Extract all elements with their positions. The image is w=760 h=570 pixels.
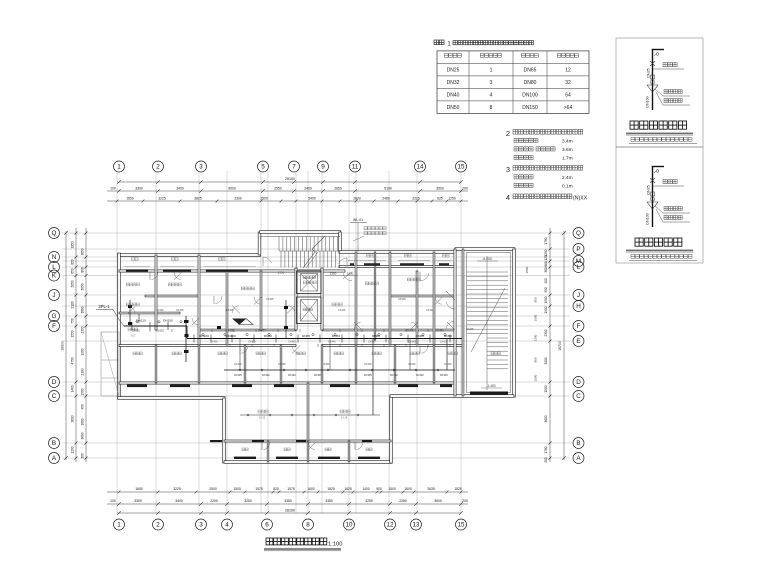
svg-text:J: J bbox=[577, 292, 580, 299]
svg-text:1: 1 bbox=[117, 164, 121, 171]
svg-text:7: 7 bbox=[292, 164, 296, 171]
svg-text:2: 2 bbox=[156, 522, 160, 529]
svg-text:DN25: DN25 bbox=[338, 308, 346, 312]
svg-text:2: 2 bbox=[156, 164, 160, 171]
svg-text:1900: 1900 bbox=[544, 306, 548, 313]
main pipe branches bbox=[132, 322, 450, 343]
svg-text:D: D bbox=[52, 379, 57, 386]
small fitting bbox=[651, 75, 655, 79]
svg-text:1250: 1250 bbox=[448, 197, 456, 201]
svg-text:DN50: DN50 bbox=[447, 105, 460, 111]
svg-text:DN25: DN25 bbox=[647, 68, 651, 77]
drawing title bbox=[266, 538, 327, 545]
elevator shaft 2 bbox=[297, 297, 322, 324]
svg-text:28100: 28100 bbox=[285, 177, 295, 181]
svg-text:1825: 1825 bbox=[454, 487, 462, 491]
svg-text:3300: 3300 bbox=[135, 187, 143, 191]
svg-text:3.07: 3.07 bbox=[130, 334, 136, 338]
svg-text:2500: 2500 bbox=[260, 197, 268, 201]
svg-text:3400: 3400 bbox=[176, 187, 184, 191]
svg-text:D: D bbox=[576, 379, 581, 386]
svg-text:1650: 1650 bbox=[126, 197, 134, 201]
svg-text:DN25: DN25 bbox=[444, 362, 452, 366]
interior walls horizontal bbox=[119, 270, 345, 272]
svg-text:4: 4 bbox=[490, 93, 493, 99]
svg-text:14: 14 bbox=[416, 164, 424, 171]
svg-text:1500: 1500 bbox=[534, 374, 538, 381]
svg-text:1780: 1780 bbox=[544, 237, 548, 244]
svg-text:F: F bbox=[52, 323, 56, 330]
svg-text:1.7m: 1.7m bbox=[562, 156, 573, 162]
svg-text:2225: 2225 bbox=[412, 197, 420, 201]
svg-text:>64: >64 bbox=[564, 105, 573, 111]
svg-text:2050: 2050 bbox=[71, 280, 75, 287]
svg-text:1500: 1500 bbox=[388, 487, 396, 491]
svg-text:N: N bbox=[52, 254, 57, 261]
svg-text:DN25: DN25 bbox=[314, 373, 322, 377]
test pipe bbox=[652, 166, 654, 227]
svg-text:800: 800 bbox=[81, 267, 85, 273]
test valve symbol bbox=[650, 178, 655, 183]
svg-text:F: F bbox=[577, 323, 581, 330]
window sill marks top band left bbox=[126, 269, 148, 271]
svg-text:H: H bbox=[576, 303, 581, 310]
svg-text:5: 5 bbox=[261, 164, 265, 171]
svg-text:1575: 1575 bbox=[287, 487, 295, 491]
svg-text:5400: 5400 bbox=[308, 197, 316, 201]
svg-text:650: 650 bbox=[71, 268, 75, 274]
svg-text:DN32: DN32 bbox=[390, 373, 398, 377]
note 3 items bbox=[514, 175, 533, 179]
svg-text:1575: 1575 bbox=[255, 487, 263, 491]
svg-text:3400: 3400 bbox=[175, 499, 183, 503]
stair door arcs bbox=[263, 257, 271, 263]
svg-text:2: 2 bbox=[506, 129, 510, 138]
svg-text:DN100: DN100 bbox=[522, 93, 538, 99]
svg-text:DN32: DN32 bbox=[447, 80, 460, 86]
svg-text:C: C bbox=[576, 393, 581, 400]
svg-text:DN40: DN40 bbox=[447, 93, 460, 99]
elevator shaft 1 bbox=[297, 271, 322, 294]
svg-text:Q: Q bbox=[576, 230, 581, 237]
svg-text:DN25: DN25 bbox=[132, 329, 140, 333]
label below left pipe bbox=[128, 328, 138, 331]
svg-text:DN65: DN65 bbox=[302, 334, 310, 338]
box note bbox=[631, 138, 692, 142]
svg-text:950: 950 bbox=[544, 287, 548, 293]
svg-text:625: 625 bbox=[437, 197, 443, 201]
svg-text:DN100: DN100 bbox=[199, 334, 209, 338]
svg-text:DN25: DN25 bbox=[406, 329, 414, 333]
svg-text:32: 32 bbox=[565, 80, 571, 86]
svg-text:WL-01: WL-01 bbox=[353, 218, 363, 222]
svg-text:DN25: DN25 bbox=[364, 373, 372, 377]
svg-text:2635: 2635 bbox=[427, 487, 435, 491]
svg-text:400: 400 bbox=[544, 278, 548, 284]
svg-text:3: 3 bbox=[199, 522, 203, 529]
interior walls vertical bbox=[155, 255, 157, 330]
svg-text:DN25: DN25 bbox=[156, 329, 164, 333]
window sill marks top band right bbox=[350, 263, 354, 266]
staircase treads bbox=[260, 237, 340, 268]
right dimension lines bbox=[549, 228, 551, 462]
door marks bottom band bbox=[210, 440, 222, 442]
left axis circles bbox=[49, 228, 60, 239]
stair break line bbox=[303, 252, 315, 268]
detail box 2 (end test valve) bbox=[616, 147, 703, 263]
svg-text:3600: 3600 bbox=[81, 432, 85, 439]
wing room labels bbox=[258, 410, 268, 413]
box note bbox=[631, 255, 692, 259]
svg-text:DN40: DN40 bbox=[408, 340, 416, 344]
svg-text:DN25: DN25 bbox=[440, 373, 448, 377]
svg-text:DN25: DN25 bbox=[398, 297, 406, 301]
svg-text:DN25: DN25 bbox=[466, 327, 474, 331]
svg-text:DN25: DN25 bbox=[278, 362, 286, 366]
svg-text:900: 900 bbox=[376, 487, 382, 491]
right axis circles bbox=[573, 228, 584, 239]
svg-text:980: 980 bbox=[534, 357, 538, 362]
band shelf lines bbox=[124, 260, 452, 266]
svg-text:1350: 1350 bbox=[330, 272, 337, 276]
svg-text:100: 100 bbox=[110, 499, 116, 503]
svg-text:B: B bbox=[52, 440, 56, 447]
svg-text:DN65: DN65 bbox=[524, 68, 537, 74]
test pipe bbox=[652, 49, 654, 110]
svg-text:1: 1 bbox=[490, 68, 493, 74]
svg-text:2350: 2350 bbox=[81, 326, 85, 333]
svg-text:1500: 1500 bbox=[534, 314, 538, 321]
svg-text:DN65: DN65 bbox=[210, 340, 218, 344]
svg-text:4: 4 bbox=[506, 193, 510, 202]
svg-text:1850: 1850 bbox=[71, 241, 75, 248]
sprinkler count table bbox=[437, 51, 589, 114]
svg-text:DN25: DN25 bbox=[647, 185, 651, 194]
wing bottom room labels bbox=[242, 448, 248, 451]
room labels storage band bbox=[132, 258, 139, 261]
svg-text:28100: 28100 bbox=[285, 509, 295, 513]
svg-text:B: B bbox=[576, 440, 580, 447]
svg-text:DN32: DN32 bbox=[426, 308, 434, 312]
svg-text:DN25: DN25 bbox=[226, 329, 234, 333]
svg-text:DN32: DN32 bbox=[408, 362, 416, 366]
gauge bbox=[656, 53, 659, 56]
dots near left riser bbox=[128, 305, 132, 308]
axis grid vertical lines bbox=[116, 171, 118, 513]
svg-text:1625: 1625 bbox=[344, 487, 352, 491]
svg-text:9: 9 bbox=[321, 164, 325, 171]
elevator labels bbox=[303, 276, 316, 279]
svg-text:G: G bbox=[52, 313, 57, 320]
svg-text:DN25: DN25 bbox=[176, 308, 184, 312]
svg-text:DN32: DN32 bbox=[288, 373, 296, 377]
svg-text:2.4m: 2.4m bbox=[562, 175, 573, 181]
svg-text:2100: 2100 bbox=[81, 368, 85, 375]
svg-text:12: 12 bbox=[565, 68, 571, 74]
svg-text:3500: 3500 bbox=[436, 187, 444, 191]
svg-text:1825: 1825 bbox=[327, 487, 335, 491]
sprinkler main pipe bbox=[124, 325, 187, 327]
svg-text:3600: 3600 bbox=[71, 415, 75, 422]
svg-text:2400: 2400 bbox=[304, 187, 312, 191]
svg-text:1780: 1780 bbox=[544, 446, 548, 453]
svg-text:2100: 2100 bbox=[71, 301, 75, 308]
svg-text:6: 6 bbox=[265, 522, 269, 529]
pump pit symbol bbox=[232, 319, 246, 325]
svg-text:1200: 1200 bbox=[71, 446, 75, 453]
svg-text:3225: 3225 bbox=[173, 487, 181, 491]
svg-text:DN32: DN32 bbox=[416, 373, 424, 377]
svg-text:DN100: DN100 bbox=[646, 96, 650, 107]
svg-text:750: 750 bbox=[71, 318, 75, 324]
svg-text:300: 300 bbox=[81, 453, 85, 459]
svg-text:2500: 2500 bbox=[209, 487, 217, 491]
svg-text:1500: 1500 bbox=[233, 487, 241, 491]
svg-text:3350: 3350 bbox=[284, 499, 292, 503]
test valve symbol bbox=[650, 61, 655, 66]
svg-text:DN80: DN80 bbox=[372, 334, 380, 338]
svg-text:1500: 1500 bbox=[81, 388, 85, 395]
svg-text:200: 200 bbox=[544, 457, 548, 463]
svg-text:1600: 1600 bbox=[81, 418, 85, 425]
svg-text:16700: 16700 bbox=[558, 341, 562, 351]
window sill marks mid band bbox=[127, 385, 147, 388]
svg-text:DN100: DN100 bbox=[226, 334, 236, 338]
note 2 items bbox=[514, 138, 538, 142]
left dimension lines bbox=[65, 231, 67, 460]
svg-text:15: 15 bbox=[457, 164, 465, 171]
svg-text:14.23: 14.23 bbox=[259, 416, 266, 420]
svg-text:1550: 1550 bbox=[525, 266, 529, 273]
svg-text:L: L bbox=[577, 264, 581, 271]
svg-text:(N)XX: (N)XX bbox=[573, 196, 588, 202]
svg-text:1550: 1550 bbox=[278, 271, 285, 275]
svg-text:400: 400 bbox=[81, 404, 85, 410]
lobby label bbox=[332, 303, 342, 306]
building outer walls bbox=[118, 254, 261, 257]
svg-text:DN25: DN25 bbox=[440, 340, 448, 344]
top dimension lines bbox=[117, 181, 461, 183]
pipe jog fittings bbox=[184, 320, 189, 323]
svg-text:DN150: DN150 bbox=[522, 105, 538, 111]
svg-text:1: 1 bbox=[117, 522, 121, 529]
funnel bbox=[647, 85, 658, 92]
secondary pipe row2 bbox=[224, 369, 455, 371]
svg-text:3200: 3200 bbox=[544, 357, 548, 364]
svg-text:1600: 1600 bbox=[307, 487, 315, 491]
svg-text:DN65: DN65 bbox=[288, 340, 296, 344]
door swing arcs bbox=[149, 272, 151, 280]
top axis circles bbox=[114, 161, 125, 172]
leader to couplings bbox=[655, 89, 663, 96]
svg-text:3PL-1: 3PL-1 bbox=[98, 304, 110, 309]
ramp treads bbox=[467, 256, 508, 390]
svg-text:1550: 1550 bbox=[71, 330, 75, 337]
sprinkler heads on corridor bbox=[136, 321, 446, 336]
svg-text:360: 360 bbox=[544, 267, 548, 273]
svg-text:10: 10 bbox=[345, 522, 353, 529]
svg-text:16300: 16300 bbox=[61, 341, 65, 351]
svg-text:DN80: DN80 bbox=[248, 340, 256, 344]
svg-text:1600: 1600 bbox=[404, 487, 412, 491]
riser pipes bbox=[129, 300, 131, 326]
window sill marks wing bottom bbox=[234, 457, 256, 459]
ramp bottom platform mark bbox=[470, 392, 508, 395]
svg-text:DN50: DN50 bbox=[332, 334, 340, 338]
svg-text:3225: 3225 bbox=[158, 197, 166, 201]
svg-text:1400: 1400 bbox=[71, 385, 75, 392]
svg-text:DN25: DN25 bbox=[234, 373, 242, 377]
svg-text:DN32: DN32 bbox=[258, 329, 266, 333]
wing sprinkler pipes bbox=[240, 414, 380, 416]
svg-text:DN100: DN100 bbox=[646, 213, 650, 224]
svg-text:8: 8 bbox=[306, 522, 310, 529]
svg-text:1650: 1650 bbox=[81, 248, 85, 255]
svg-text:-1.400: -1.400 bbox=[486, 384, 495, 388]
leader to couplings bbox=[655, 206, 663, 213]
svg-text:DN25: DN25 bbox=[364, 362, 372, 366]
svg-text:825: 825 bbox=[273, 487, 279, 491]
svg-text:4750: 4750 bbox=[71, 357, 75, 364]
funnel bbox=[647, 202, 658, 209]
svg-text:DN25: DN25 bbox=[447, 68, 460, 74]
svg-text:660: 660 bbox=[544, 261, 548, 267]
svg-text:12: 12 bbox=[386, 522, 394, 529]
axis grid horizontal lines bbox=[62, 232, 570, 234]
svg-text:2650: 2650 bbox=[334, 187, 342, 191]
box title bbox=[630, 121, 687, 129]
svg-text:1650: 1650 bbox=[135, 487, 143, 491]
svg-text:100: 100 bbox=[110, 187, 116, 191]
svg-text:Q: Q bbox=[52, 230, 57, 237]
svg-text:14.18: 14.18 bbox=[341, 416, 348, 420]
detail box 1 (end test device) bbox=[616, 38, 703, 147]
svg-text:DN65: DN65 bbox=[368, 340, 376, 344]
svg-text:120: 120 bbox=[544, 255, 548, 261]
room labels row 2 bbox=[126, 283, 139, 286]
svg-text:E: E bbox=[576, 338, 580, 345]
ramp enclosure bbox=[467, 253, 511, 393]
svg-text:DN80: DN80 bbox=[264, 334, 272, 338]
svg-text:3250: 3250 bbox=[365, 499, 373, 503]
small fitting bbox=[651, 192, 655, 196]
svg-text:J: J bbox=[52, 292, 55, 299]
svg-text:3300: 3300 bbox=[134, 499, 142, 503]
svg-text:1900: 1900 bbox=[544, 296, 548, 303]
svg-text:DN100: DN100 bbox=[137, 313, 141, 323]
svg-text:DN40: DN40 bbox=[156, 308, 164, 312]
notes heading line 1 bbox=[434, 40, 444, 45]
svg-text:1400: 1400 bbox=[362, 487, 370, 491]
svg-text:11: 11 bbox=[352, 164, 359, 171]
gauge bbox=[656, 170, 659, 173]
svg-text:3600: 3600 bbox=[434, 499, 442, 503]
left annex walls bbox=[101, 332, 119, 396]
ramp arrow bbox=[471, 288, 505, 352]
svg-text:DN32: DN32 bbox=[322, 362, 330, 366]
svg-text:4: 4 bbox=[225, 522, 229, 529]
svg-text:3200: 3200 bbox=[534, 334, 538, 341]
svg-text:3.6m: 3.6m bbox=[562, 147, 573, 153]
svg-text:1800: 1800 bbox=[81, 306, 85, 313]
svg-text:8: 8 bbox=[490, 105, 493, 111]
tick pairs along corridor walls bbox=[150, 329, 450, 347]
svg-text:3250: 3250 bbox=[244, 499, 252, 503]
svg-text:1900: 1900 bbox=[81, 348, 85, 355]
svg-text:980: 980 bbox=[534, 297, 538, 302]
svg-text:3350: 3350 bbox=[325, 499, 333, 503]
svg-text:2550: 2550 bbox=[274, 187, 282, 191]
svg-text:0.1m: 0.1m bbox=[562, 184, 573, 190]
svg-text:9000: 9000 bbox=[228, 187, 236, 191]
svg-text:1:100: 1:100 bbox=[328, 542, 343, 548]
bottom dimension lines bbox=[107, 491, 468, 493]
svg-text:15: 15 bbox=[457, 522, 465, 529]
row2 room labels bbox=[133, 352, 142, 355]
svg-text:DN100: DN100 bbox=[163, 319, 173, 323]
svg-text:2200: 2200 bbox=[210, 499, 218, 503]
svg-text:2825: 2825 bbox=[194, 197, 202, 201]
svg-text:200: 200 bbox=[462, 187, 468, 191]
svg-text:2350: 2350 bbox=[544, 329, 548, 336]
svg-text:DN65: DN65 bbox=[416, 334, 424, 338]
box title bbox=[635, 238, 682, 246]
svg-text:2280: 2280 bbox=[399, 499, 407, 503]
svg-text:850: 850 bbox=[71, 259, 75, 265]
label leader bbox=[653, 185, 685, 187]
svg-text:3: 3 bbox=[506, 165, 510, 174]
svg-text:3: 3 bbox=[199, 164, 203, 171]
svg-text:-5.200: -5.200 bbox=[482, 257, 492, 261]
svg-text:2480: 2480 bbox=[382, 197, 390, 201]
table header cells bbox=[444, 54, 461, 58]
svg-text:1500: 1500 bbox=[544, 385, 548, 392]
svg-text:5100: 5100 bbox=[384, 187, 392, 191]
svg-text:DN80: DN80 bbox=[524, 80, 537, 86]
svg-text:DN50: DN50 bbox=[444, 334, 452, 338]
small note top center bbox=[364, 227, 386, 230]
svg-text:DN25: DN25 bbox=[266, 297, 274, 301]
svg-text:DN32: DN32 bbox=[262, 373, 270, 377]
svg-text:1500: 1500 bbox=[347, 272, 354, 276]
bottom axis circles bbox=[114, 519, 125, 530]
svg-text:3600: 3600 bbox=[544, 415, 548, 422]
svg-text:3: 3 bbox=[490, 80, 493, 86]
svg-text:DN40: DN40 bbox=[328, 340, 336, 344]
svg-text:64: 64 bbox=[565, 93, 571, 99]
svg-text:200: 200 bbox=[462, 499, 468, 503]
svg-text:DN50: DN50 bbox=[436, 329, 444, 333]
svg-text:2300: 2300 bbox=[234, 197, 242, 201]
svg-text:C: C bbox=[52, 393, 57, 400]
svg-text:3050: 3050 bbox=[81, 283, 85, 290]
label leader bbox=[653, 68, 685, 70]
svg-text:P: P bbox=[576, 246, 580, 253]
vertical branch pipes bbox=[239, 339, 241, 371]
svg-text:DN25: DN25 bbox=[234, 362, 242, 366]
svg-text:13: 13 bbox=[412, 522, 420, 529]
svg-text:3.4m: 3.4m bbox=[562, 139, 573, 145]
